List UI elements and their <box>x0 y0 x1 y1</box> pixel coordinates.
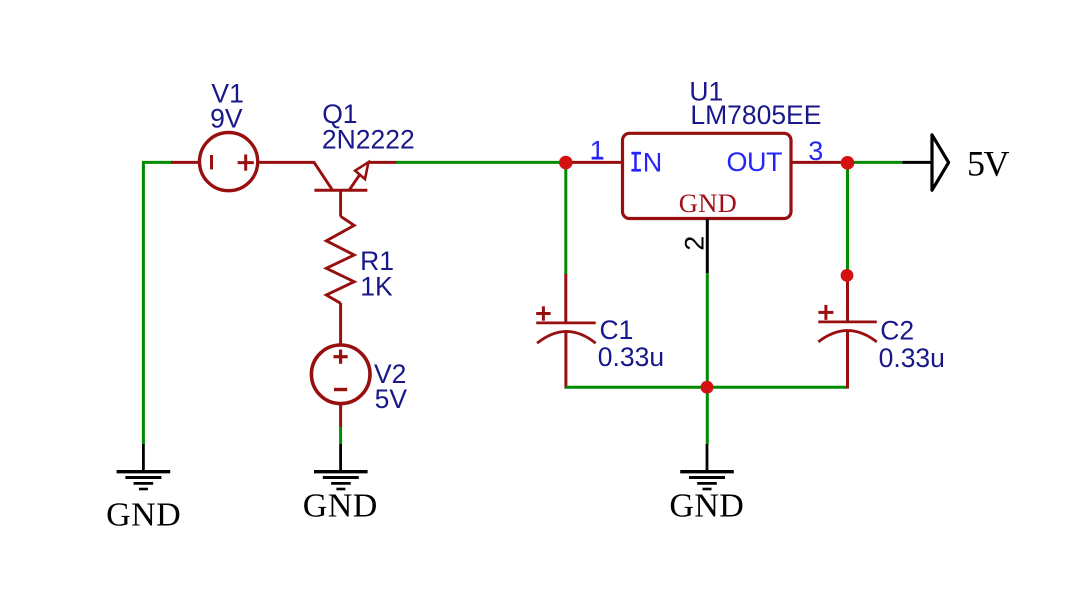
wire pin 3 <box>791 161 848 164</box>
junction node C <box>701 381 714 394</box>
wire <box>564 162 567 274</box>
wire pin 1 <box>566 161 623 164</box>
wire pin 2 <box>706 219 709 274</box>
wire <box>564 274 567 324</box>
wire <box>339 303 342 345</box>
wire <box>848 161 903 164</box>
wire <box>566 386 847 389</box>
wire <box>846 163 849 276</box>
svg-text:GND: GND <box>679 188 737 218</box>
voltage source V1 <box>200 133 258 191</box>
svg-text:9V: 9V <box>210 104 243 134</box>
wire <box>706 273 709 444</box>
IC U1 <box>623 133 792 218</box>
wire <box>171 161 200 164</box>
svg-text:GND: GND <box>303 488 378 525</box>
junction node D <box>841 269 854 282</box>
svg-text:1K: 1K <box>360 271 393 301</box>
wire <box>339 427 342 444</box>
wire <box>396 161 566 164</box>
junction node B <box>841 156 855 170</box>
wire <box>339 404 342 427</box>
svg-text:1: 1 <box>590 135 605 165</box>
wire <box>368 161 397 164</box>
capacitor C1 <box>536 306 596 388</box>
wire <box>143 162 173 444</box>
ground <box>680 444 734 489</box>
net port 5V <box>932 135 949 190</box>
wire <box>902 161 932 164</box>
svg-text:5V: 5V <box>967 143 1010 183</box>
svg-text:5V: 5V <box>375 384 408 414</box>
capacitor C2 <box>818 305 877 389</box>
svg-text:C2: C2 <box>880 316 914 346</box>
svg-text:OUT: OUT <box>727 147 783 177</box>
ground <box>117 444 171 489</box>
svg-text:0.33u: 0.33u <box>598 342 664 372</box>
svg-text:GND: GND <box>669 488 744 525</box>
svg-text:C1: C1 <box>600 315 634 345</box>
wire <box>257 161 314 164</box>
svg-text:2N2222: 2N2222 <box>322 125 415 155</box>
junction node A <box>559 156 573 170</box>
pin number 1 <box>590 135 605 165</box>
svg-text:LM7805EE: LM7805EE <box>690 100 821 130</box>
voltage source V2 <box>311 345 370 404</box>
ground <box>314 444 368 489</box>
svg-text:3: 3 <box>808 136 823 166</box>
svg-text:2: 2 <box>679 236 709 251</box>
wire <box>846 275 849 322</box>
svg-text:GND: GND <box>106 497 181 534</box>
pin name IN serif bars <box>631 152 641 172</box>
svg-text:0.33u: 0.33u <box>879 343 945 373</box>
resistor R1 <box>326 216 354 303</box>
transistor Q1 <box>314 162 369 217</box>
